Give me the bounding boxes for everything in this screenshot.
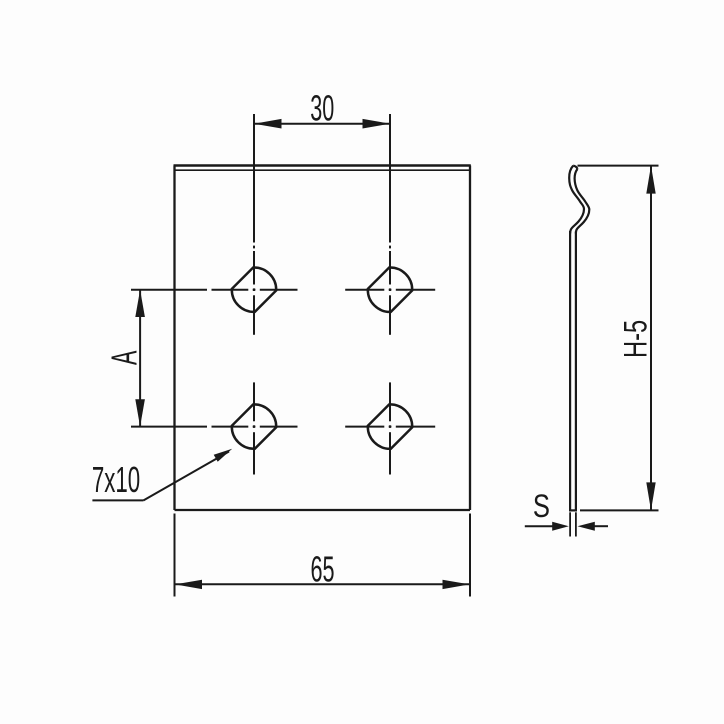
svg-text:7x10: 7x10 (92, 461, 140, 501)
svg-text:A: A (105, 350, 145, 365)
svg-text:30: 30 (310, 89, 334, 129)
svg-text:H-5: H-5 (618, 320, 653, 358)
svg-text:65: 65 (310, 550, 334, 590)
svg-text:S: S (533, 489, 550, 524)
